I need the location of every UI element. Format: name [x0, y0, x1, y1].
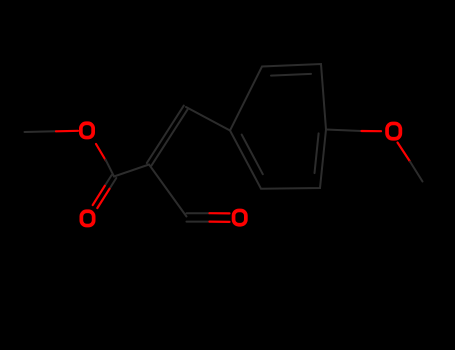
- benzene ring outline (dark bonds): [230, 64, 326, 189]
- wire: C1 to alpha carbon C2 bond: [114, 165, 149, 177]
- atom label O1: ester oxygen: [81, 123, 93, 137]
- atom label O4: methoxy oxygen: [387, 123, 400, 138]
- wire: O4 to methoxy CH3 bond (oxygen part red): [398, 143, 411, 162]
- wire: C2=C4 vinyl double bond line b: [147, 106, 184, 164]
- wire: C3=O3 aldehyde double bond upper line (dark half then red half): [187, 212, 210, 214]
- ring aromatic inner line left (BL-L): [242, 135, 263, 175]
- wire: C1=O2 ester carbonyl double bond line a (dark near C1, red to O2): [105, 175, 112, 186]
- wire: ester methyl C-H3 to O1 bond (carbon half, dark): [25, 130, 57, 133]
- wire: ester methyl to O1 bond (oxygen half, red): [56, 130, 78, 133]
- wire: C1=O2 ester carbonyl double bond line b (dark near C1, red to O2): [110, 178, 117, 189]
- wire: C2=C4 vinyl double bond line a: [151, 108, 188, 165]
- wire: O1 to carbonyl C1 bond (carbon part, dark): [106, 160, 115, 177]
- ring aromatic inner line top (TL-TR): [271, 74, 311, 76]
- wire: O4 to methoxy CH3 bond (carbon part dark): [410, 162, 423, 182]
- wire: ring para carbon to O4 bond (oxygen half red): [362, 130, 382, 132]
- wire: C2 to formyl C3 bond: [149, 165, 187, 217]
- wire: C3=O3 aldehyde double bond lower line (dark half then red half): [187, 221, 210, 223]
- wire: C4 benzylidene CH to ring ipso carbon bond: [186, 107, 230, 131]
- wire: ring para carbon to O4 bond (carbon half dark): [326, 130, 362, 132]
- ring aromatic inner line right (R-BR): [315, 133, 319, 173]
- atom label O3: aldehyde oxygen: [234, 210, 246, 224]
- wire: O1 to carbonyl C1 bond (oxygen part, red): [96, 144, 106, 161]
- atom label O2: ester carbonyl oxygen: [81, 211, 93, 225]
